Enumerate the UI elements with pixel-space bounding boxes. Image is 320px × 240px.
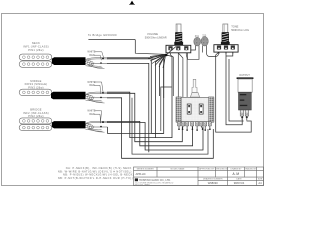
svg-text:NB: P-NCT(B-W/2TOD'L R-H-NECK: NB: P-NCT(B-W/2TOD'L R-H-NECK OUR (H-TC)… [58,176,133,180]
svg-text:PIN1 (26w): PIN1 (26w) [28,48,43,52]
svg-text:HOSHINO GAKKI CO., LTD.: HOSHINO GAKKI CO., LTD. [139,179,171,182]
svg-text:331: 331 [195,35,200,38]
svg-text:APPROVED BY: APPROVED BY [199,168,215,171]
svg-text:500KOhm LINEAR: 500KOhm LINEAR [145,35,167,39]
svg-text:TRACED BY: TRACED BY [245,168,258,171]
svg-text:VOLUME: VOLUME [147,32,158,36]
svg-text:RED: RED [89,84,94,87]
svg-text:CHECKED BY: CHECKED BY [215,169,229,171]
svg-text:NAGOYA, JAPAN: NAGOYA, JAPAN [135,183,151,186]
svg-text:DRAWN BY: DRAWN BY [230,168,242,171]
svg-text:DATE: DATE [236,178,242,181]
svg-text:DRAWING NUMBER: DRAWING NUMBER [203,178,223,181]
svg-text:RED: RED [89,54,94,57]
svg-text:To Bridge GROUND: To Bridge GROUND [88,33,117,37]
svg-text:PIN2 (26w): PIN2 (26w) [28,114,43,118]
svg-text:MODEL NAME: MODEL NAME [171,168,186,171]
svg-text:500KOhm LOG: 500KOhm LOG [231,28,249,32]
svg-text:PIN3 (26w): PIN3 (26w) [28,85,43,89]
svg-text:NECK: NECK [32,41,40,45]
svg-text:INF1 (INF-CLASS): INF1 (INF-CLASS) [23,45,49,49]
svg-text:A4: A4 [258,181,262,185]
svg-text:223: 223 [202,35,207,38]
svg-text:A. M: A. M [233,172,240,176]
svg-text:TONE: TONE [231,25,238,29]
svg-text:RED: RED [89,113,94,116]
svg-text:SERIES NUMBER: SERIES NUMBER [137,169,155,171]
svg-text:98/07/24: 98/07/24 [234,181,245,185]
svg-text:APB-HC: APB-HC [136,172,146,176]
svg-text:W98090: W98090 [208,181,219,185]
svg-text:SIZE: SIZE [258,179,263,181]
svg-text:OUTPUT: OUTPUT [239,73,250,77]
